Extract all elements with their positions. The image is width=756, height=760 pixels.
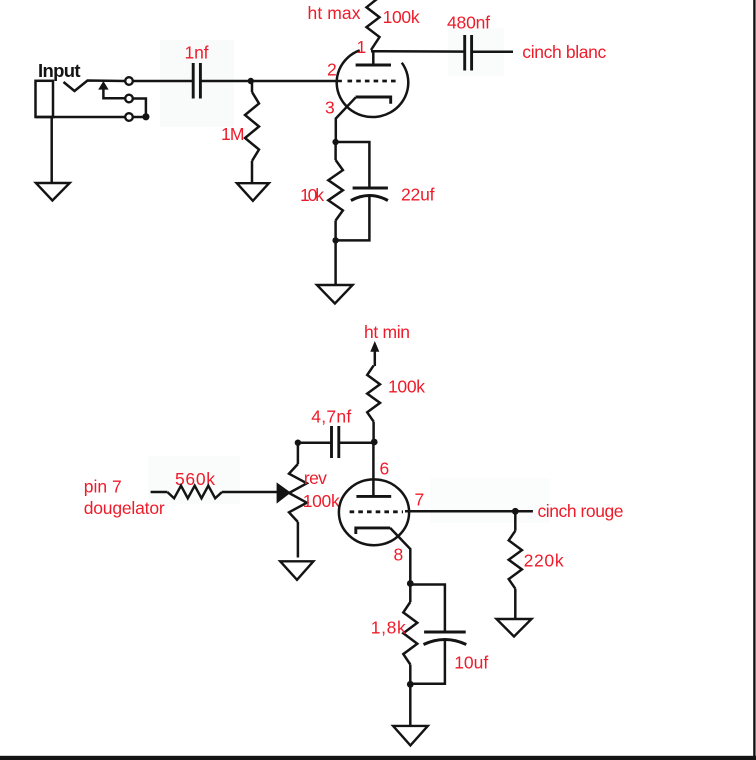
- capacitor 1nf plates: [192, 63, 195, 99]
- svg-text:ht min: ht min: [364, 322, 410, 342]
- jack J1 tip spring contact: [64, 81, 125, 92]
- wire junction up to ring: [134, 99, 146, 118]
- wire to 10uf top: [410, 585, 445, 633]
- faint scan patches: [160, 40, 234, 127]
- tube U1 cathode bar with right hook: [356, 97, 391, 104]
- wire to ground: [334, 240, 337, 284]
- node grid junction dot: [248, 78, 254, 84]
- ground 220k: [497, 619, 532, 637]
- jack J1 body: [36, 81, 54, 117]
- jack ring terminal circle: [125, 95, 133, 103]
- ground cathode network: [317, 285, 353, 304]
- arrow ht min shaft: [374, 349, 377, 366]
- svg-text:1nf: 1nf: [185, 43, 209, 63]
- wire C1 to grid pin 2: [200, 80, 342, 83]
- tube U2 plate lead pin 6: [372, 442, 375, 496]
- svg-text:rev: rev: [304, 468, 327, 488]
- capacitor 22uf curved plate: [351, 196, 388, 201]
- frame right border: [753, 0, 755, 760]
- svg-text:1,8k: 1,8k: [371, 618, 406, 638]
- ground cathode network 2: [393, 726, 428, 746]
- tube U1 grid dashed: [348, 80, 398, 83]
- svg-text:1M: 1M: [221, 124, 245, 144]
- wire tip to C1: [134, 80, 194, 83]
- wire anode node to C2: [371, 50, 465, 53]
- resistor 100k anode (cut off at top): [367, 0, 380, 50]
- tube U1 cathode exit lead pin 3: [336, 97, 356, 142]
- tube U2 envelope: [339, 479, 409, 545]
- svg-text:22uf: 22uf: [401, 185, 435, 205]
- svg-text:480nf: 480nf: [447, 13, 490, 33]
- wiper arrow head: [277, 482, 291, 503]
- ground pot: [280, 561, 313, 580]
- tube U2 cathode exit lead pin 8: [390, 528, 410, 584]
- svg-text:10uf: 10uf: [454, 653, 488, 673]
- resistor 220k: [514, 511, 517, 531]
- svg-text:Input: Input: [38, 60, 81, 81]
- resistor 1,8k: [409, 584, 412, 603]
- node plate junction dot: [371, 439, 378, 446]
- node cathode junction dot: [332, 139, 338, 145]
- svg-text:cinch blanc: cinch blanc: [522, 42, 606, 62]
- jack sleeve terminal circle: [125, 113, 133, 121]
- svg-text:ht max: ht max: [308, 3, 361, 23]
- ground input jack: [36, 183, 70, 201]
- wire to 22uf top: [336, 142, 370, 188]
- tube U2 plate bar: [356, 495, 391, 498]
- wire jack to ground: [50, 117, 53, 183]
- tube U2 cathode bar with left hook: [356, 528, 390, 534]
- potentiometer rev 100k: [297, 443, 300, 464]
- wire C3 to pot top: [298, 441, 332, 444]
- wire 10uf bottom to junction: [410, 640, 445, 684]
- tube U2 grid dashed: [350, 510, 403, 513]
- node bottom junction dot 2: [407, 681, 414, 688]
- wire to ground: [409, 684, 412, 725]
- ground 1M: [237, 183, 269, 201]
- svg-text:cinch rouge: cinch rouge: [538, 501, 624, 521]
- svg-text:100k: 100k: [383, 7, 420, 27]
- svg-text:6: 6: [380, 458, 390, 478]
- wire sleeve line to jack body: [36, 116, 125, 119]
- resistor 1M: [251, 81, 254, 92]
- node cathode junction dot 2: [407, 580, 414, 587]
- svg-text:2: 2: [327, 60, 337, 80]
- wire 22uf bottom to junction: [336, 196, 370, 240]
- resistor 10k cathode: [334, 142, 337, 160]
- tube U1 plate bar: [356, 64, 391, 67]
- svg-text:7: 7: [415, 490, 425, 510]
- wire junction to C3: [339, 441, 374, 444]
- capacitor 22uf top plate: [353, 187, 388, 190]
- junction dot sleeve-ring: [142, 113, 149, 120]
- svg-text:10k: 10k: [300, 185, 324, 205]
- capacitor 4,7nf plates: [330, 426, 333, 458]
- svg-text:4,7nf: 4,7nf: [311, 407, 351, 427]
- resistor 560k: [151, 491, 168, 494]
- svg-text:220k: 220k: [524, 551, 564, 571]
- resistor 100k plate (bottom stage): [367, 366, 380, 422]
- node bottom junction dot: [332, 237, 338, 243]
- node pot top junction dot: [295, 440, 301, 446]
- capacitor 10uf top plate: [424, 631, 466, 634]
- svg-text:8: 8: [394, 545, 404, 565]
- node cinch rouge junction dot: [512, 508, 519, 515]
- wire grid pin 7 to cinch rouge: [405, 510, 533, 513]
- tube U1 envelope (arc with top gap): [337, 50, 409, 117]
- frame bottom border: [0, 756, 756, 760]
- svg-text:pin 7: pin 7: [84, 477, 122, 497]
- capacitor 480nf plates: [463, 35, 466, 71]
- svg-text:3: 3: [325, 98, 335, 118]
- svg-text:100k: 100k: [388, 376, 425, 396]
- wire ring terminal to switch arrow: [103, 89, 124, 99]
- arrow ht min head: [370, 341, 379, 352]
- tube U1 plate lead pin 1: [372, 51, 375, 66]
- svg-text:dougelator: dougelator: [84, 498, 165, 518]
- svg-text:1: 1: [357, 37, 367, 57]
- wire C2 to cinch blanc: [472, 51, 513, 54]
- capacitor 10uf curved plate: [424, 640, 467, 645]
- jack tip terminal circle: [125, 77, 133, 85]
- svg-text:100k: 100k: [303, 491, 340, 511]
- switch arrow head: [98, 81, 108, 90]
- wire sleeve to junction: [134, 116, 146, 119]
